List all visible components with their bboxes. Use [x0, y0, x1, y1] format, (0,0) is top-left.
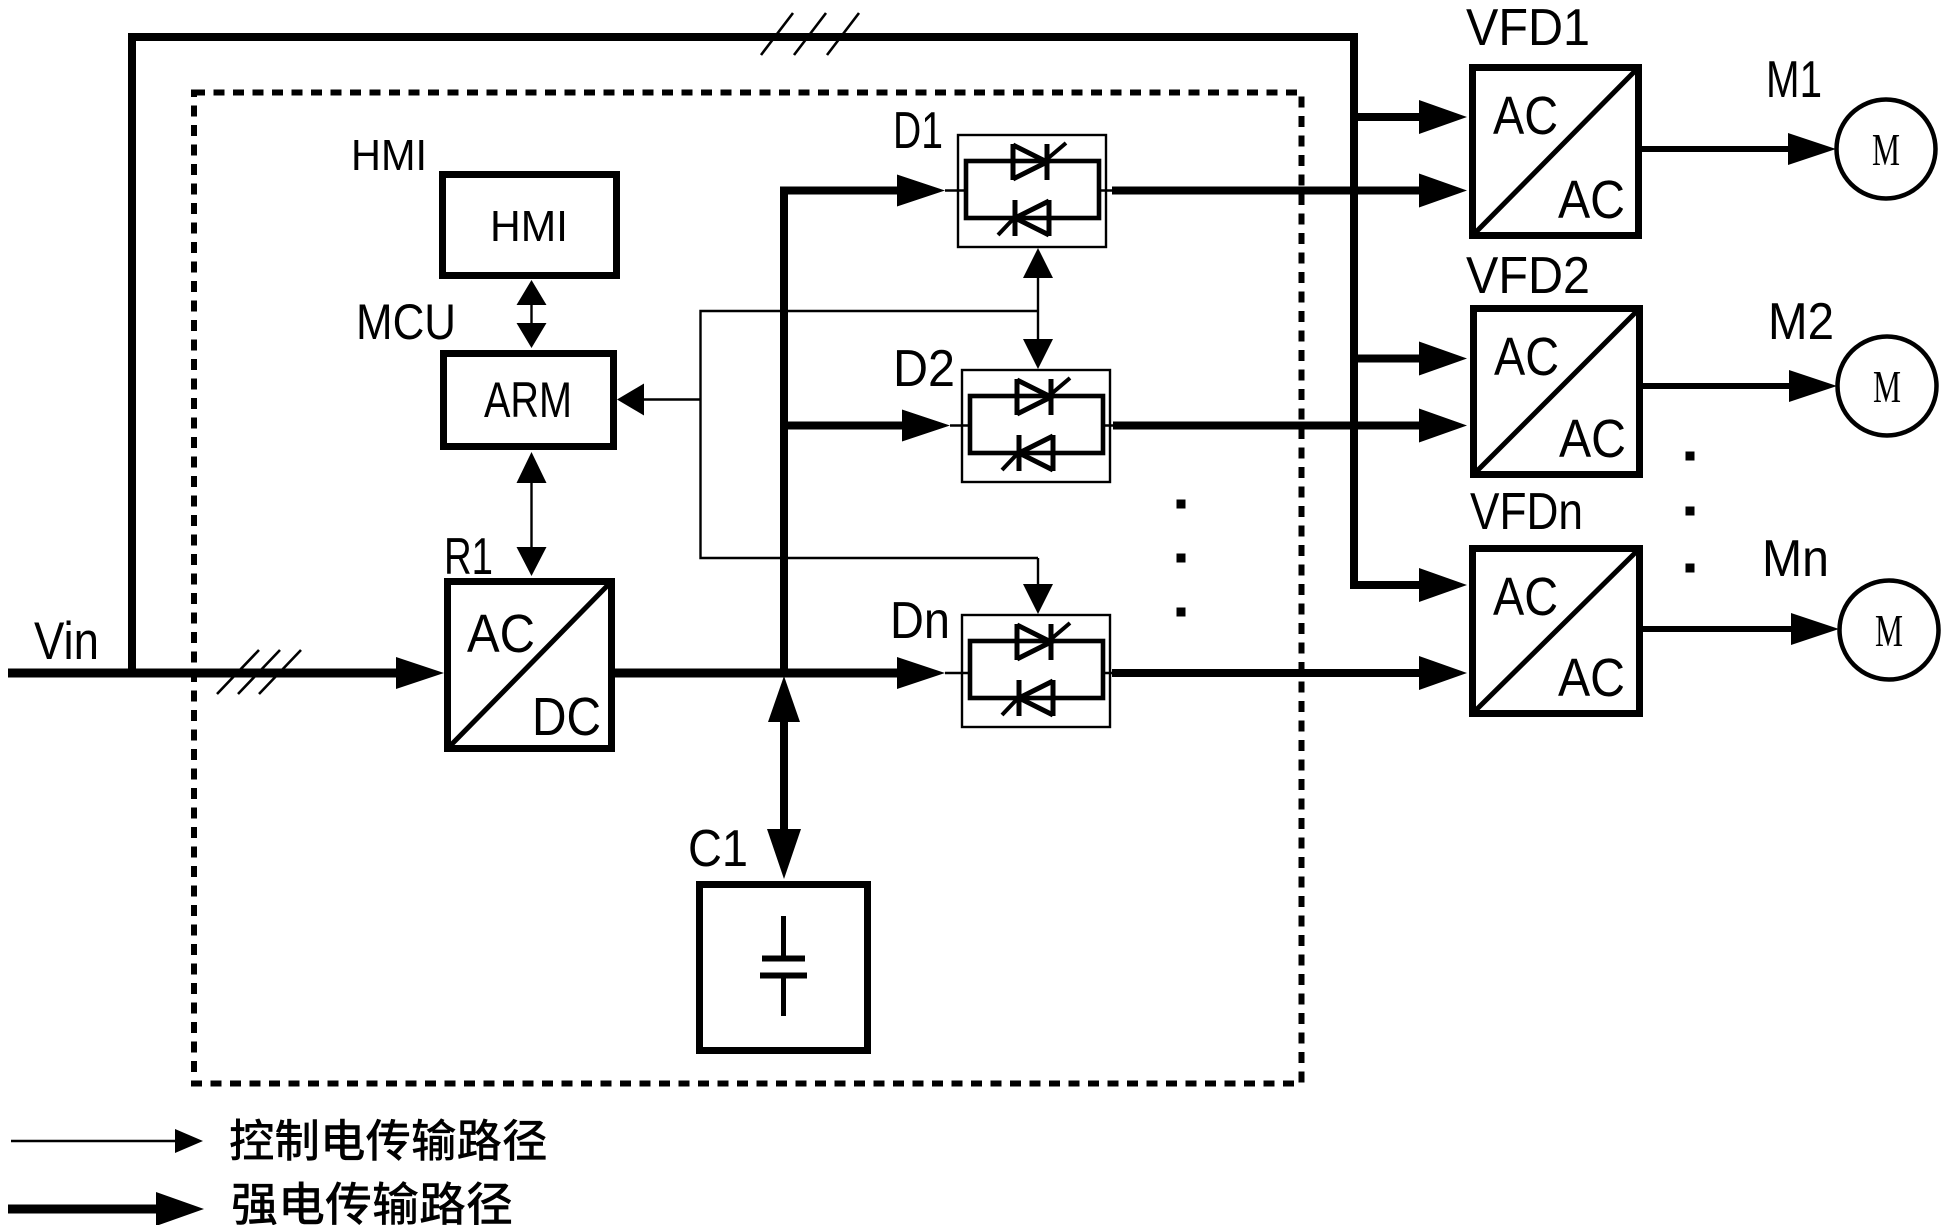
3-phase slashes on top feeder	[761, 13, 859, 55]
arrowhead VFDn lower input	[1419, 656, 1467, 690]
legend: thick power arrow	[8, 1192, 204, 1225]
svg-text:R1: R1	[444, 528, 493, 586]
arrowhead control up into D1	[1023, 248, 1053, 278]
arrowhead into D2	[902, 410, 950, 442]
svg-text:Mn: Mn	[1762, 530, 1829, 588]
wire: branch to VFD1 upper input	[1350, 113, 1421, 121]
arrowhead VFD2 upper input	[1419, 342, 1467, 376]
arrowhead into ARM	[617, 384, 644, 416]
wire: C1 connector shaft	[780, 705, 788, 850]
motor M1	[1837, 100, 1936, 199]
MCU / ARM box	[444, 354, 614, 447]
wire: VFD2 output to M2	[1643, 383, 1791, 389]
svg-text:VFDn: VFDn	[1470, 483, 1583, 541]
arrowhead ARM-R1 up	[517, 452, 547, 483]
arrowhead C1 link down	[767, 829, 801, 879]
arrowhead HMI-ARM up	[517, 280, 547, 305]
inverter VFD2 box AC/AC	[1474, 309, 1640, 475]
wire: thin segments through D1	[945, 189, 1113, 192]
svg-text:D1: D1	[893, 102, 943, 160]
thyristor pair D1	[958, 135, 1106, 247]
ellipsis dots between D2 and Dn	[1177, 500, 1186, 617]
arrowhead control down into Dn	[1023, 584, 1053, 614]
svg-text:VFD2: VFD2	[1466, 247, 1590, 305]
svg-text:AC: AC	[467, 604, 535, 664]
svg-text:AC: AC	[1559, 409, 1626, 469]
arrowhead into Mn	[1791, 613, 1839, 645]
wire: branch to VFD2 upper input	[1350, 355, 1421, 363]
arrowhead into M1	[1788, 133, 1836, 165]
legend: thin control-power arrow	[11, 1129, 203, 1153]
inverter VFDn box AC/AC	[1473, 549, 1640, 714]
HMI box	[443, 175, 617, 276]
inverter VFD1 box AC/AC	[1473, 68, 1639, 236]
dashed enclosure box	[194, 93, 1302, 1084]
capacitor C1 box	[700, 885, 868, 1051]
svg-text:HMI: HMI	[351, 131, 427, 180]
svg-text:M1: M1	[1766, 51, 1822, 109]
wire: DC bus riser x784 feeding D1	[784, 191, 899, 674]
rectifier R1 box AC/DC	[448, 582, 612, 749]
legend text: strong power transmission path	[233, 1181, 511, 1225]
svg-text:M: M	[1872, 124, 1900, 175]
arrowhead VFD2 lower input	[1419, 409, 1467, 443]
svg-text:AC: AC	[1493, 86, 1558, 146]
svg-text:Vin: Vin	[34, 612, 99, 671]
motor M2	[1838, 337, 1937, 436]
thyristor pair D2	[962, 370, 1110, 482]
wire: control link D1-D2	[1037, 252, 1039, 364]
wire: VFD1 output to M1	[1642, 146, 1790, 152]
wire: control line into ARM	[644, 398, 701, 400]
arrowhead into M2	[1789, 370, 1837, 402]
3-phase slashes on Vin line	[217, 650, 301, 694]
wire: control bus U-shape from D1/D2 link down to Dn link	[701, 311, 1039, 558]
arrowhead into R1	[396, 657, 444, 689]
arrowhead C1 link up	[768, 676, 800, 722]
wire: thin segments through Dn	[945, 672, 1113, 675]
wire: HMI-ARM link shaft	[530, 296, 532, 334]
svg-text:Dn: Dn	[890, 592, 950, 650]
motor Mn	[1840, 581, 1939, 680]
svg-text:VFD1: VFD1	[1466, 0, 1590, 57]
svg-text:HMI: HMI	[490, 202, 568, 251]
svg-text:C1: C1	[688, 820, 748, 878]
svg-text:D2: D2	[893, 340, 955, 398]
wire: DC bus from R1 output to Dn	[615, 669, 899, 678]
ellipsis dots between M2 and Mn	[1686, 452, 1695, 573]
arrowhead VFD1 upper input	[1419, 100, 1467, 134]
arrowhead control down into D2	[1023, 339, 1053, 369]
thyristor pair Dn	[962, 615, 1110, 727]
wire: ARM-R1 link shaft	[530, 468, 532, 560]
wire: Vin input line into R1	[8, 669, 398, 678]
wire: D2 output to VFD2 lower input	[1113, 422, 1421, 430]
svg-text:AC: AC	[1494, 327, 1559, 387]
svg-text:AC: AC	[1558, 648, 1625, 708]
legend text: control power transmission path	[230, 1118, 545, 1160]
svg-text:AC: AC	[1558, 170, 1625, 230]
svg-text:ARM: ARM	[484, 372, 572, 428]
wire: control link to Dn	[1037, 558, 1039, 610]
arrowhead VFDn upper input	[1419, 568, 1467, 602]
arrowhead into Dn	[897, 657, 945, 689]
arrowhead into D1	[897, 175, 945, 207]
wire: D1 output to VFD1 lower input	[1112, 187, 1421, 195]
wire: top power feeder from Vin riser to VFD column	[132, 37, 1419, 677]
svg-text:AC: AC	[1493, 567, 1558, 627]
svg-text:MCU: MCU	[356, 294, 456, 350]
svg-text:M: M	[1873, 361, 1901, 412]
wire: branch feeding D2	[784, 422, 904, 430]
svg-text:M2: M2	[1768, 293, 1834, 351]
arrowhead VFD1 lower input	[1419, 174, 1467, 208]
arrowhead ARM-R1 down	[517, 547, 547, 576]
wire: VFDn output to Mn	[1643, 626, 1793, 632]
wire: thin segments through D2	[950, 424, 1114, 427]
svg-text:DC: DC	[532, 687, 601, 747]
svg-text:M: M	[1875, 605, 1903, 656]
arrowhead HMI-ARM down	[517, 323, 547, 348]
wire: Dn output to VFDn lower input	[1112, 669, 1421, 677]
